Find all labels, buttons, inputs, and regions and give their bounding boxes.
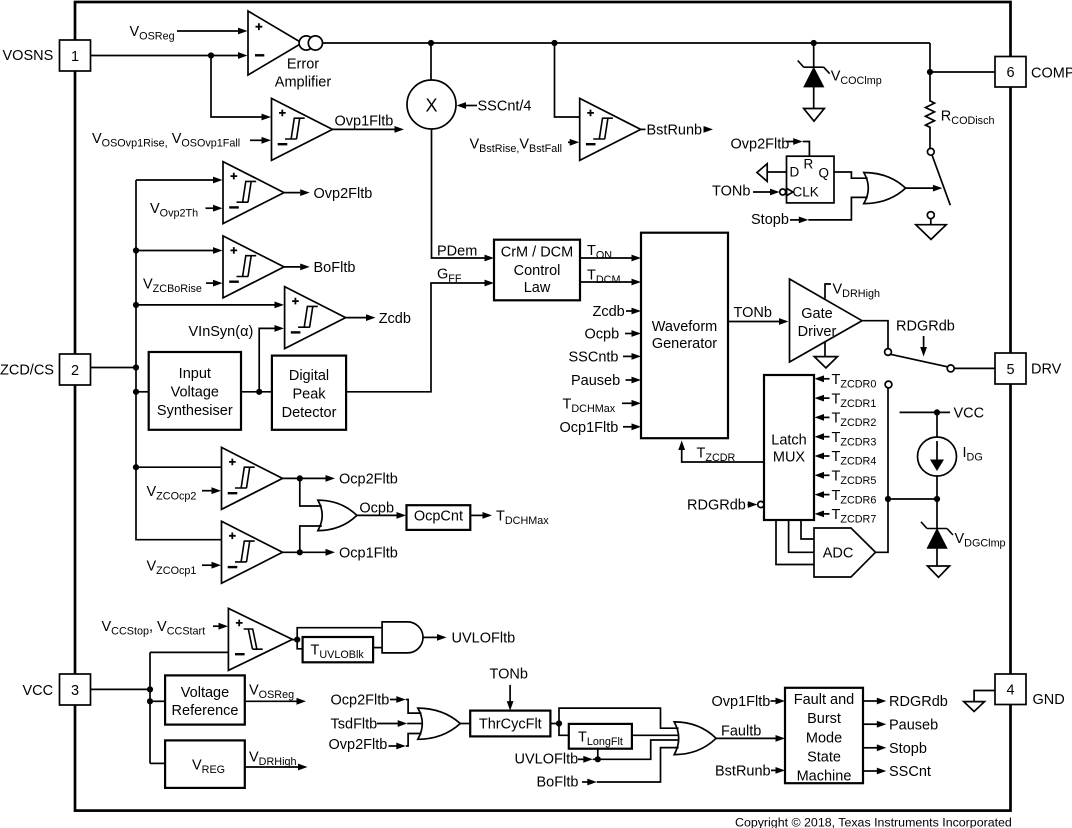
svg-text:Control: Control <box>514 263 561 279</box>
svg-text:TDCHMax: TDCHMax <box>496 509 549 528</box>
wire UVLO output bypass over TUVLOBlk to AND gate <box>292 628 382 640</box>
svg-text:VZCOcp1: VZCOcp1 <box>147 558 197 577</box>
svg-text:TZCDR7: TZCDR7 <box>832 507 877 526</box>
svg-text:Ocp2Fltb: Ocp2Fltb <box>339 472 398 488</box>
pin 1 VOSNS <box>3 40 91 71</box>
label TONb into CLK <box>712 184 780 200</box>
label TZCDR6 <box>815 488 877 507</box>
svg-text:ADC: ADC <box>823 546 854 562</box>
wire Ocp1 output Ocp1Fltb <box>283 545 398 561</box>
label TZCDR2 <box>815 411 877 430</box>
svg-text:VCOClmp: VCOClmp <box>831 69 882 88</box>
svg-text:3: 3 <box>71 683 79 699</box>
node bus junction IVS <box>133 389 139 395</box>
label VZCBoRise <box>143 276 223 295</box>
svg-text:BstRunb: BstRunb <box>647 123 703 139</box>
svg-text:OcpCnt: OcpCnt <box>414 509 463 525</box>
svg-text:RDGRdb: RDGRdb <box>687 498 746 514</box>
svg-text:BoFltb: BoFltb <box>537 775 579 791</box>
svg-text:SSCnt: SSCnt <box>889 764 931 780</box>
label VOvp2Th <box>150 201 223 220</box>
wire Q output to OR gate <box>834 172 868 178</box>
svg-text:TZCDR2: TZCDR2 <box>832 411 877 430</box>
wire Ocp2 output Ocp2Fltb <box>283 472 398 488</box>
wire VDRHigh output <box>245 749 308 770</box>
label TZCDR3 <box>815 430 877 449</box>
label VZCOcp1 <box>147 558 222 577</box>
comparator Zcdb <box>285 287 346 349</box>
label Ocpb input to WG <box>585 327 642 343</box>
svg-text:VDRHigh: VDRHigh <box>249 749 296 768</box>
wire UVLO output into TUVLOBlk <box>297 640 302 649</box>
svg-text:VOSNS: VOSNS <box>3 48 54 64</box>
block TUVLOBlk <box>303 637 374 662</box>
svg-text:TONb: TONb <box>490 667 528 683</box>
svg-text:Driver: Driver <box>798 324 837 340</box>
svg-text:TZCDR: TZCDR <box>697 446 736 465</box>
block Voltage Reference <box>165 675 245 724</box>
svg-text:TON: TON <box>587 243 612 262</box>
ground below switch <box>916 225 946 240</box>
svg-text:TONb: TONb <box>712 184 750 200</box>
wire bus to Ocp2 non-inverting input <box>136 466 222 468</box>
svg-text:Synthesiser: Synthesiser <box>157 403 233 419</box>
svg-text:TsdFltb: TsdFltb <box>331 717 378 733</box>
block VREG <box>165 740 245 788</box>
AND gate UVLOFltb <box>382 622 423 653</box>
svg-text:Detector: Detector <box>282 405 337 421</box>
svg-text:MUX: MUX <box>773 449 806 465</box>
ground below gate driver <box>814 342 837 368</box>
wire rail corner down to COMP node <box>929 43 931 72</box>
wire bypass over TLongFlt to fault OR <box>550 708 678 728</box>
OR gate Ocpb <box>318 500 357 530</box>
node bus junction pin2 <box>133 364 139 370</box>
svg-text:SSCnt/4: SSCnt/4 <box>478 98 532 114</box>
svg-text:Zcdb: Zcdb <box>593 304 625 320</box>
label Ovp2Fltb to flip-flop reset <box>731 137 810 157</box>
label TZCDR4 <box>815 449 877 468</box>
svg-text:PDem: PDem <box>437 243 477 259</box>
flip-flop U1 D/CLK/R/Q <box>780 156 834 203</box>
svg-text:BstRunb: BstRunb <box>715 764 771 780</box>
svg-text:Ocp1Fltb: Ocp1Fltb <box>339 545 398 561</box>
multiplier X <box>407 80 456 129</box>
svg-text:Input: Input <box>179 366 211 382</box>
current source IDG <box>918 412 983 528</box>
wire ADC node to IDG node <box>888 498 937 500</box>
svg-text:Digital: Digital <box>289 368 329 384</box>
ground below VDGClmp <box>928 566 950 577</box>
svg-text:Ocp1Fltb: Ocp1Fltb <box>560 420 619 436</box>
wire VOSReg to error amp non-inverting input <box>177 28 248 35</box>
node bus junction Ocp2 <box>133 464 139 470</box>
wire pin1 to error amp inverting input <box>91 52 248 59</box>
svg-text:Ovp2Fltb: Ovp2Fltb <box>329 737 388 753</box>
comparator Ocp1 <box>222 521 283 583</box>
svg-text:UVLOFltb: UVLOFltb <box>452 631 516 647</box>
svg-text:Waveform: Waveform <box>652 319 718 335</box>
block ThrCycFlt <box>470 711 550 737</box>
wire rail down to BstRunb non-inverting input <box>555 43 580 117</box>
comparator Ovp2 <box>223 162 284 224</box>
label TZCDR1 <box>815 391 877 410</box>
svg-text:VOSReg: VOSReg <box>249 683 294 702</box>
svg-text:TZCDR3: TZCDR3 <box>832 430 877 449</box>
svg-text:Amplifier: Amplifier <box>275 74 332 90</box>
comparator Ovp1 <box>272 98 333 160</box>
wire bus to Zcdb non-inverting input <box>136 302 284 309</box>
block TLongFlt <box>569 724 632 749</box>
label Pauseb input to WG <box>571 373 641 389</box>
node VCC bus junction pin3 <box>147 686 153 692</box>
block Input Voltage Synthesiser <box>149 352 241 430</box>
svg-text:VCC: VCC <box>23 683 54 699</box>
label TZCDR5 <box>815 469 877 488</box>
open triangle on D input <box>757 164 787 182</box>
svg-text:State: State <box>807 749 841 765</box>
wire OcpCnt output TDCHMax <box>470 509 549 528</box>
wire Pauseb output <box>863 717 938 733</box>
svg-text:SSCntb: SSCntb <box>569 350 619 366</box>
wire Ocp1 junction up to OR gate <box>300 526 322 552</box>
wire IVS to Digital Peak Detector <box>241 391 272 393</box>
svg-text:Mode: Mode <box>806 730 842 746</box>
svg-text:Peak: Peak <box>292 387 326 403</box>
svg-text:Ovp2Fltb: Ovp2Fltb <box>314 186 373 202</box>
block CrM / DCM Control Law <box>494 240 580 301</box>
wire gate driver output to switch <box>862 321 888 349</box>
wire ADC output up to DRV sense <box>876 388 889 552</box>
svg-text:VDRHigh: VDRHigh <box>833 281 880 300</box>
VCC rail top right <box>900 406 985 422</box>
svg-text:Law: Law <box>524 280 551 296</box>
svg-text:Stopb: Stopb <box>751 212 789 228</box>
wire TLongFlt output to fault OR <box>632 734 679 736</box>
wire into TLongFlt <box>559 724 569 736</box>
label UVLOFltb into fault OR <box>515 740 679 768</box>
pin 3 VCC <box>23 674 91 705</box>
node A junction on pin1 wire <box>208 52 214 58</box>
svg-text:VDGClmp: VDGClmp <box>955 531 1006 550</box>
pin 6 COMP <box>995 57 1072 88</box>
svg-text:TZCDR4: TZCDR4 <box>832 449 877 468</box>
svg-text:ZCD/CS: ZCD/CS <box>0 362 54 378</box>
svg-text:Generator: Generator <box>652 336 717 352</box>
wire RDGRdb output <box>863 694 948 710</box>
svg-text:Voltage: Voltage <box>181 685 229 701</box>
wire OR output to switch arrow <box>906 185 943 192</box>
node ThrCycFlt output junction <box>556 720 562 726</box>
label SSCnt/4 input to multiplier <box>457 98 532 114</box>
label TZCDR0 <box>815 372 877 391</box>
svg-text:RCODisch: RCODisch <box>941 109 995 128</box>
svg-text:TZCDR6: TZCDR6 <box>832 488 877 507</box>
svg-text:VInSyn(α): VInSyn(α) <box>189 324 254 340</box>
label Ocp1Fltb input to WG <box>560 420 642 436</box>
svg-text:6: 6 <box>1006 65 1014 81</box>
wire SSCnt output <box>863 764 931 780</box>
svg-text:Ocpb: Ocpb <box>359 501 394 517</box>
svg-text:VCCStop, VCCStart: VCCStop, VCCStart <box>102 619 206 638</box>
comparator BstRunb <box>580 98 641 160</box>
svg-text:Reference: Reference <box>172 703 239 719</box>
node Ocp1 output junction <box>297 549 303 555</box>
wire Ocpb to OcpCnt <box>357 501 406 519</box>
label Ovp2Fltb into fault OR <box>329 734 422 754</box>
svg-text:Ocp2Fltb: Ocp2Fltb <box>331 693 390 709</box>
svg-text:CLK: CLK <box>793 185 819 200</box>
wire DPD output to GFF <box>346 266 494 391</box>
wire BoFltb output <box>284 260 355 276</box>
wire TZCDR from latch mux to WG <box>678 441 764 465</box>
svg-text:ThrCycFlt: ThrCycFlt <box>479 717 542 733</box>
wire Ovp2 output Ovp2Fltb <box>284 186 372 202</box>
pin 5 DRV <box>995 353 1062 384</box>
svg-text:VOvp2Th: VOvp2Th <box>150 201 198 220</box>
svg-text:Pauseb: Pauseb <box>889 717 938 733</box>
wire ZCD bus vertical <box>136 180 222 540</box>
svg-text:RDGRdb: RDGRdb <box>896 318 955 334</box>
svg-text:2: 2 <box>71 363 79 379</box>
svg-text:TZCDR1: TZCDR1 <box>832 391 877 410</box>
svg-text:RDGRdb: RDGRdb <box>889 694 948 710</box>
svg-text:Voltage: Voltage <box>171 384 219 400</box>
svg-text:DRV: DRV <box>1031 362 1062 378</box>
node bus junction Zcdb <box>133 302 139 308</box>
wire pin2 to bus <box>91 367 137 369</box>
svg-text:Gate: Gate <box>801 306 832 322</box>
svg-text:VOSReg: VOSReg <box>130 24 175 43</box>
label VCCStop VCCStart <box>102 619 229 638</box>
VCC bus vertical <box>149 652 151 763</box>
svg-text:D: D <box>790 164 800 179</box>
switch on COMP discharge path <box>927 148 950 224</box>
label BoFltb into fault OR <box>537 748 679 791</box>
node VCC bus junction VRef <box>147 698 153 704</box>
svg-text:Stopb: Stopb <box>889 741 927 757</box>
wire TONb from WG to gate driver <box>728 305 789 325</box>
ground below VCOClmp <box>804 109 825 122</box>
comparator BoFltb <box>223 236 284 298</box>
pin 2 ZCD/CS <box>0 354 91 385</box>
node junction to BstRunb comparator <box>551 40 557 46</box>
node UVLO output junction <box>294 637 300 643</box>
wire rail down to multiplier <box>430 43 432 80</box>
ground symbol at GND pin <box>964 691 995 712</box>
svg-text:TZCDR0: TZCDR0 <box>832 372 877 391</box>
wire VCC bus to UVLO inverting input <box>150 651 228 653</box>
svg-text:Ovp1Fltb: Ovp1Fltb <box>335 113 394 129</box>
svg-text:1: 1 <box>71 49 79 65</box>
wire bus to voltage reference <box>150 700 165 702</box>
OR gate thermal faults <box>418 708 461 739</box>
svg-text:VOSOvp1Rise, VOSOvp1Fall: VOSOvp1Rise, VOSOvp1Fall <box>92 131 240 150</box>
label TDCHMax input to WG <box>563 396 642 415</box>
svg-text:Copyright © 2018, Texas Instru: Copyright © 2018, Texas Instruments Inco… <box>735 815 1012 828</box>
wire TUVLOBlk to AND gate <box>373 647 382 649</box>
OR gate U2 driving switch <box>864 173 906 204</box>
svg-text:R: R <box>804 157 814 172</box>
wire bus to IVS input <box>136 391 149 393</box>
svg-text:IDG: IDG <box>963 445 983 464</box>
wire TON to waveform generator <box>580 243 641 262</box>
gate driver triangle <box>790 279 863 362</box>
label Ovp1Fltb into state machine <box>712 694 786 710</box>
svg-text:TDCHMax: TDCHMax <box>563 396 616 415</box>
svg-text:Ovp1Fltb: Ovp1Fltb <box>712 694 771 710</box>
switch DRV <box>885 349 995 372</box>
svg-text:Latch: Latch <box>771 432 806 448</box>
wire Stopb output <box>863 741 927 757</box>
open contact on DRV sense <box>885 381 892 388</box>
wire bus to BoFltb non-inverting input <box>136 247 223 254</box>
block Latch MUX <box>764 375 814 520</box>
block OcpCnt <box>407 505 471 530</box>
op-amp error amplifier <box>248 11 331 90</box>
wire Ocp2 junction down to OR gate <box>300 478 322 506</box>
OR gate Faultb <box>674 722 716 755</box>
wire multiplier output down to PDem <box>432 129 495 261</box>
comparator UVLO <box>228 608 292 670</box>
wires latch mux to ADC staircase <box>776 520 814 565</box>
label BstRunb into state machine <box>715 764 785 780</box>
label VZCOcp2 <box>147 484 222 503</box>
label Ocp2Fltb into fault OR <box>331 693 422 714</box>
pin 4 GND <box>995 674 1065 708</box>
zener VDGClmp <box>921 522 1006 566</box>
label SSCntb input to WG <box>569 350 642 366</box>
svg-text:Error: Error <box>287 57 319 73</box>
svg-text:Machine: Machine <box>797 769 852 785</box>
svg-text:Pauseb: Pauseb <box>571 373 620 389</box>
svg-text:Ocpb: Ocpb <box>585 327 620 343</box>
arrow into BstRunb inverting input <box>568 141 571 143</box>
label TONb into ThrCycFlt <box>490 667 528 711</box>
svg-text:Fault and: Fault and <box>794 692 854 708</box>
svg-text:Q: Q <box>819 165 830 180</box>
wire error amp output rail <box>323 42 931 44</box>
node bus junction BoFltb <box>133 247 139 253</box>
resistor RCODisch <box>926 72 995 148</box>
svg-text:X: X <box>425 95 437 115</box>
wire Faultb to state machine <box>716 724 785 742</box>
svg-text:VCC: VCC <box>954 406 985 422</box>
wire into Ovp1 inverting input <box>250 139 262 141</box>
wire bus to Ovp2 non-inverting input <box>136 177 223 184</box>
label RDGRdb into latch mux <box>687 498 764 514</box>
svg-text:UVLOFltb: UVLOFltb <box>515 752 579 768</box>
svg-text:TONb: TONb <box>734 305 772 321</box>
label TZCDR7 <box>815 507 877 526</box>
svg-text:Faultb: Faultb <box>721 724 761 740</box>
wire to pin 6 <box>930 71 995 73</box>
wire Ovp1 output Ovp1Fltb <box>333 113 405 132</box>
svg-text:VBstRise,VBstFall: VBstRise,VBstFall <box>470 136 563 155</box>
label Zcdb input to WG <box>593 304 642 320</box>
svg-text:Zcdb: Zcdb <box>379 311 411 327</box>
svg-text:VZCOcp2: VZCOcp2 <box>147 484 197 503</box>
label Stopb into OR gate <box>751 197 868 228</box>
node junction to VCOClmp <box>811 40 817 46</box>
svg-text:COMP: COMP <box>1031 66 1072 82</box>
svg-text:4: 4 <box>1006 683 1014 699</box>
svg-text:TZCDR5: TZCDR5 <box>832 469 877 488</box>
svg-text:TDCM: TDCM <box>587 267 620 286</box>
wire pin3 to VCC bus <box>91 688 151 690</box>
wire VInSyn from peak detector node to Zcdb inverting input <box>259 325 284 392</box>
ADC block <box>814 528 876 577</box>
comparator Ocp2 <box>222 447 283 509</box>
svg-text:GFF: GFF <box>437 266 462 285</box>
node junction to multiplier <box>428 40 434 46</box>
label RDGRdb switch control <box>896 318 955 356</box>
node junction VInSyn <box>256 389 262 395</box>
wire VOSReg output <box>245 683 306 705</box>
wire bus to VREG <box>150 762 165 764</box>
wire BstRunb output <box>641 123 713 139</box>
svg-text:5: 5 <box>1006 362 1014 378</box>
svg-text:VZCBoRise: VZCBoRise <box>143 276 202 295</box>
block Digital Peak Detector <box>272 356 346 430</box>
wire TDCM to waveform generator <box>580 267 641 286</box>
node Ocp2 output junction <box>297 475 303 481</box>
svg-text:BoFltb: BoFltb <box>314 260 356 276</box>
wire junction down to Ovp1 comparator <box>211 56 271 121</box>
svg-text:Ovp2Fltb: Ovp2Fltb <box>731 137 790 153</box>
node COMP junction <box>927 69 933 75</box>
wire OR to ThrCycFlt <box>460 723 470 725</box>
wire Zcdb output <box>346 311 411 327</box>
svg-text:CrM / DCM: CrM / DCM <box>501 245 574 261</box>
zener VCOClmp <box>798 43 882 109</box>
label TsdFltb into fault OR <box>331 717 423 733</box>
svg-text:Burst: Burst <box>807 711 841 727</box>
svg-text:GND: GND <box>1033 692 1065 708</box>
block Fault and Burst Mode State Machine <box>785 688 863 785</box>
block Waveform Generator <box>641 233 728 439</box>
wire AND output UVLOFltb <box>423 631 515 647</box>
label VDRHigh supply tick on gate driver <box>825 281 880 300</box>
